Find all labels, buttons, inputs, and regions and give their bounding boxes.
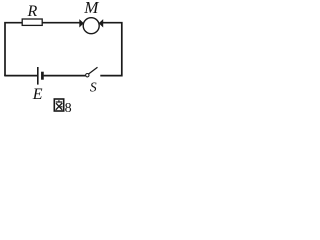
wire: battery to bottom-left corner bbox=[5, 75, 37, 77]
battery E1 short thick plate (negative) bbox=[41, 72, 44, 80]
wire: resistor to motor bbox=[42, 22, 79, 24]
wire: switch to battery bbox=[44, 75, 86, 77]
resistor R1 body bbox=[22, 19, 42, 25]
svg-text:E: E bbox=[32, 86, 43, 103]
motor M1 circle bbox=[83, 18, 99, 34]
battery E1 long thin plate (positive) bbox=[37, 67, 39, 85]
motor right triangle bbox=[99, 20, 103, 27]
motor left triangle bbox=[80, 20, 84, 27]
wire: top-left segment from corner to resistor bbox=[5, 23, 22, 76]
svg-text:S: S bbox=[90, 79, 97, 94]
wire: bottom-left corner joint bbox=[4, 75, 6, 77]
wire: motor to top-right corner, down right side to bottom-right corner, left to switch bbox=[100, 23, 122, 76]
background bbox=[0, 0, 127, 117]
svg-text:R: R bbox=[27, 3, 38, 20]
svg-text:8: 8 bbox=[65, 101, 72, 116]
switch S1 lever bbox=[89, 67, 98, 74]
caption glyph 图 (drawn) bbox=[54, 99, 63, 111]
svg-text:M: M bbox=[83, 0, 99, 17]
switch S1 pivot circle bbox=[86, 74, 89, 77]
